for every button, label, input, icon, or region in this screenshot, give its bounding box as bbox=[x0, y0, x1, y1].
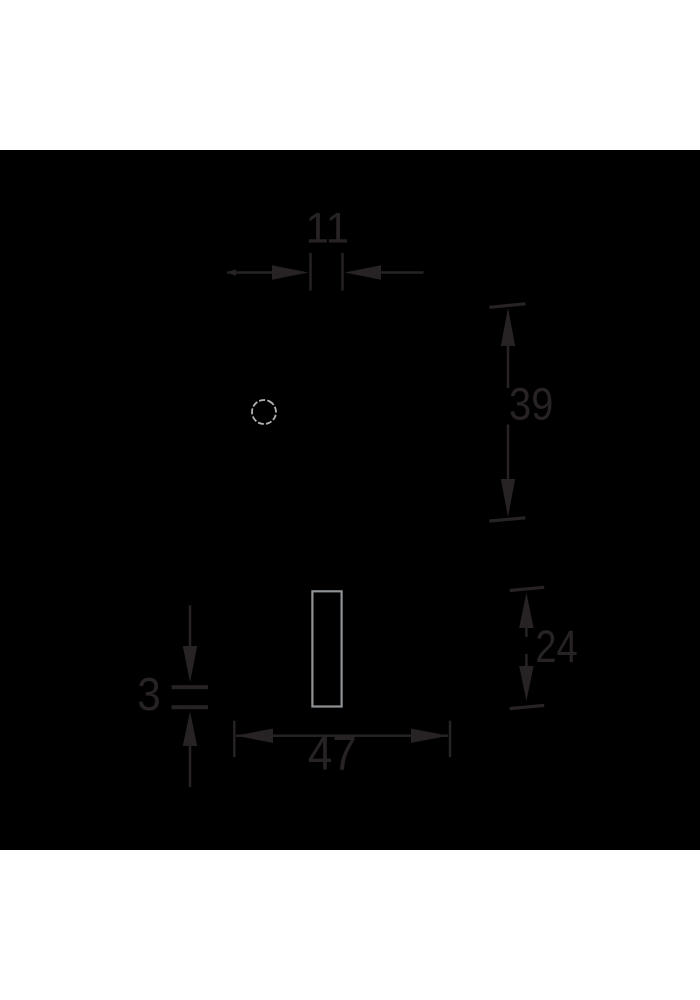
dimension 39 bottom tick bbox=[489, 518, 525, 521]
dimension 47 shaft wire bbox=[236, 734, 448, 737]
extension line right of slot width bbox=[341, 253, 343, 291]
drawing canvas (black 700x700 band) bbox=[0, 150, 700, 850]
svg-text:24: 24 bbox=[535, 621, 577, 672]
mounting hole circle bbox=[248, 396, 280, 428]
dimension 11 right leader wire bbox=[378, 271, 424, 274]
dimension 24 upper shaft wire bbox=[525, 612, 528, 637]
slot rectangle bbox=[312, 591, 341, 706]
svg-text:3: 3 bbox=[137, 668, 161, 720]
dimension 11 right arrowhead bbox=[345, 265, 382, 279]
dimension 47 right tick bbox=[449, 721, 451, 757]
dimension 24 lower shaft wire bbox=[525, 654, 528, 668]
dimension 47 left arrowhead bbox=[236, 729, 273, 743]
dimension 39 lower shaft wire bbox=[507, 425, 510, 485]
svg-text:39: 39 bbox=[509, 379, 553, 430]
dimension 3 upper shaft wire bbox=[189, 605, 192, 650]
dimension 39 top tick bbox=[489, 304, 525, 308]
dimension 24 up arrowhead bbox=[519, 593, 533, 628]
dimension 39 up arrowhead bbox=[501, 308, 515, 346]
dimension 11 left arrowhead bbox=[272, 265, 309, 279]
dimension 39 down arrowhead bbox=[501, 479, 515, 517]
dimension 3 up arrowhead bbox=[183, 712, 197, 747]
dimension 11 left leader end cap bbox=[227, 269, 237, 275]
dimension 3 down arrowhead bbox=[183, 646, 197, 682]
dimension 24 down arrowhead bbox=[519, 666, 533, 701]
dimension 3 lower shaft wire bbox=[189, 742, 192, 787]
dimension 24 bottom tick bbox=[510, 705, 545, 708]
svg-text:11: 11 bbox=[306, 205, 349, 253]
extension line left of slot width bbox=[309, 253, 311, 291]
dimension 3 top tick bbox=[172, 685, 208, 689]
dimension 47 right arrowhead bbox=[411, 729, 449, 743]
dimension 47 left tick bbox=[233, 721, 235, 757]
dimension 3 bottom tick bbox=[172, 705, 208, 709]
dimension 11 left leader wire bbox=[227, 271, 275, 274]
dimension 39 upper shaft wire bbox=[507, 330, 510, 388]
dimension 24 top tick bbox=[510, 587, 545, 590]
